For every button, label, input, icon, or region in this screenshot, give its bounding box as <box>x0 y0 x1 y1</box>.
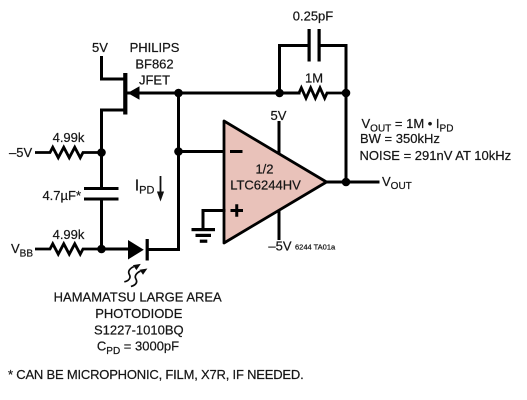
wire: VBB node to photodiode anode <box>102 248 129 251</box>
label PHILIPS BF862 JFET <box>130 40 180 88</box>
svg-text:BW = 350kHz: BW = 350kHz <box>360 131 440 146</box>
wire: feedback left vertical <box>280 46 308 94</box>
svg-text:S1227-1010BQ: S1227-1010BQ <box>94 323 184 338</box>
svg-text:BF862: BF862 <box>135 57 173 72</box>
wire: op-amp +5V supply stub <box>278 123 281 154</box>
plus input symbol <box>231 204 244 217</box>
svg-text:0.25pF: 0.25pF <box>293 9 334 24</box>
node: VBB junction <box>97 245 106 254</box>
light arrows into photodiode <box>124 267 140 287</box>
svg-text:4.99k: 4.99k <box>53 227 85 242</box>
svg-text:LTC6244HV: LTC6244HV <box>230 178 301 193</box>
wire: non-inverting input to ground <box>203 211 224 229</box>
wire: op-amp -5V supply stub <box>278 212 281 239</box>
svg-text:* CAN BE MICROPHONIC, FILM, X7: * CAN BE MICROPHONIC, FILM, X7R, IF NEED… <box>8 367 304 382</box>
wire: cap to right vertical <box>321 46 346 183</box>
svg-text:4.7µF*: 4.7µF* <box>42 188 81 203</box>
svg-text:IPD: IPD <box>135 178 155 197</box>
transistor Q1 PHILIPS BF862 JFET <box>102 73 140 153</box>
wire: source node down to cap <box>100 153 103 188</box>
node: feedback left junction <box>275 89 284 98</box>
capacitor C1 4.7uF <box>84 187 119 201</box>
svg-text:NOISE = 291nV AT 10kHz: NOISE = 291nV AT 10kHz <box>360 148 512 163</box>
resistor R2 4.99k (from VBB) <box>35 244 102 254</box>
photodiode D1 <box>128 239 179 261</box>
svg-text:HAMAMATSU LARGE AREA: HAMAMATSU LARGE AREA <box>54 290 222 305</box>
node: inverting input junction <box>174 147 183 156</box>
ground <box>192 228 216 243</box>
wire: 5V stub to JFET drain <box>102 58 123 80</box>
svg-text:5V: 5V <box>92 40 108 55</box>
svg-text:5V: 5V <box>271 108 287 123</box>
wire: gate / summing node horizontal run to feedback <box>128 92 299 95</box>
svg-text:6244 TA01a: 6244 TA01a <box>295 243 336 252</box>
svg-text:1M: 1M <box>305 71 323 86</box>
node: source junction <box>97 148 106 157</box>
svg-text:CPD = 3000pF: CPD = 3000pF <box>97 339 179 358</box>
wire: to inverting input <box>179 150 225 153</box>
node: gate junction <box>174 89 183 98</box>
svg-text:JFET: JFET <box>139 73 170 88</box>
label HAMAMATSU photodiode block <box>54 290 222 358</box>
svg-text:–5V: –5V <box>268 239 291 254</box>
resistor R1 4.99k (to -5V) <box>35 147 102 157</box>
node: feedback right junction <box>342 89 351 98</box>
svg-text:–5V: –5V <box>9 145 32 160</box>
wire: cap to VBB node <box>100 201 103 250</box>
svg-text:1/2: 1/2 <box>255 162 273 177</box>
node: output junction <box>342 178 351 187</box>
svg-text:4.99k: 4.99k <box>53 130 85 145</box>
resistor R3 1M (feedback) <box>299 88 346 98</box>
svg-text:VOUT: VOUT <box>382 174 412 192</box>
svg-text:PHILIPS: PHILIPS <box>130 40 180 55</box>
svg-text:PHOTODIODE: PHOTODIODE <box>95 306 182 321</box>
wire: output <box>327 181 379 184</box>
wire: summing node vertical <box>177 93 180 250</box>
svg-text:VBB: VBB <box>11 241 33 260</box>
capacitor C2 0.25pF <box>308 29 321 62</box>
minus input symbol <box>230 150 243 153</box>
op-amp U1 1/2 LTC6244HV <box>224 121 327 243</box>
